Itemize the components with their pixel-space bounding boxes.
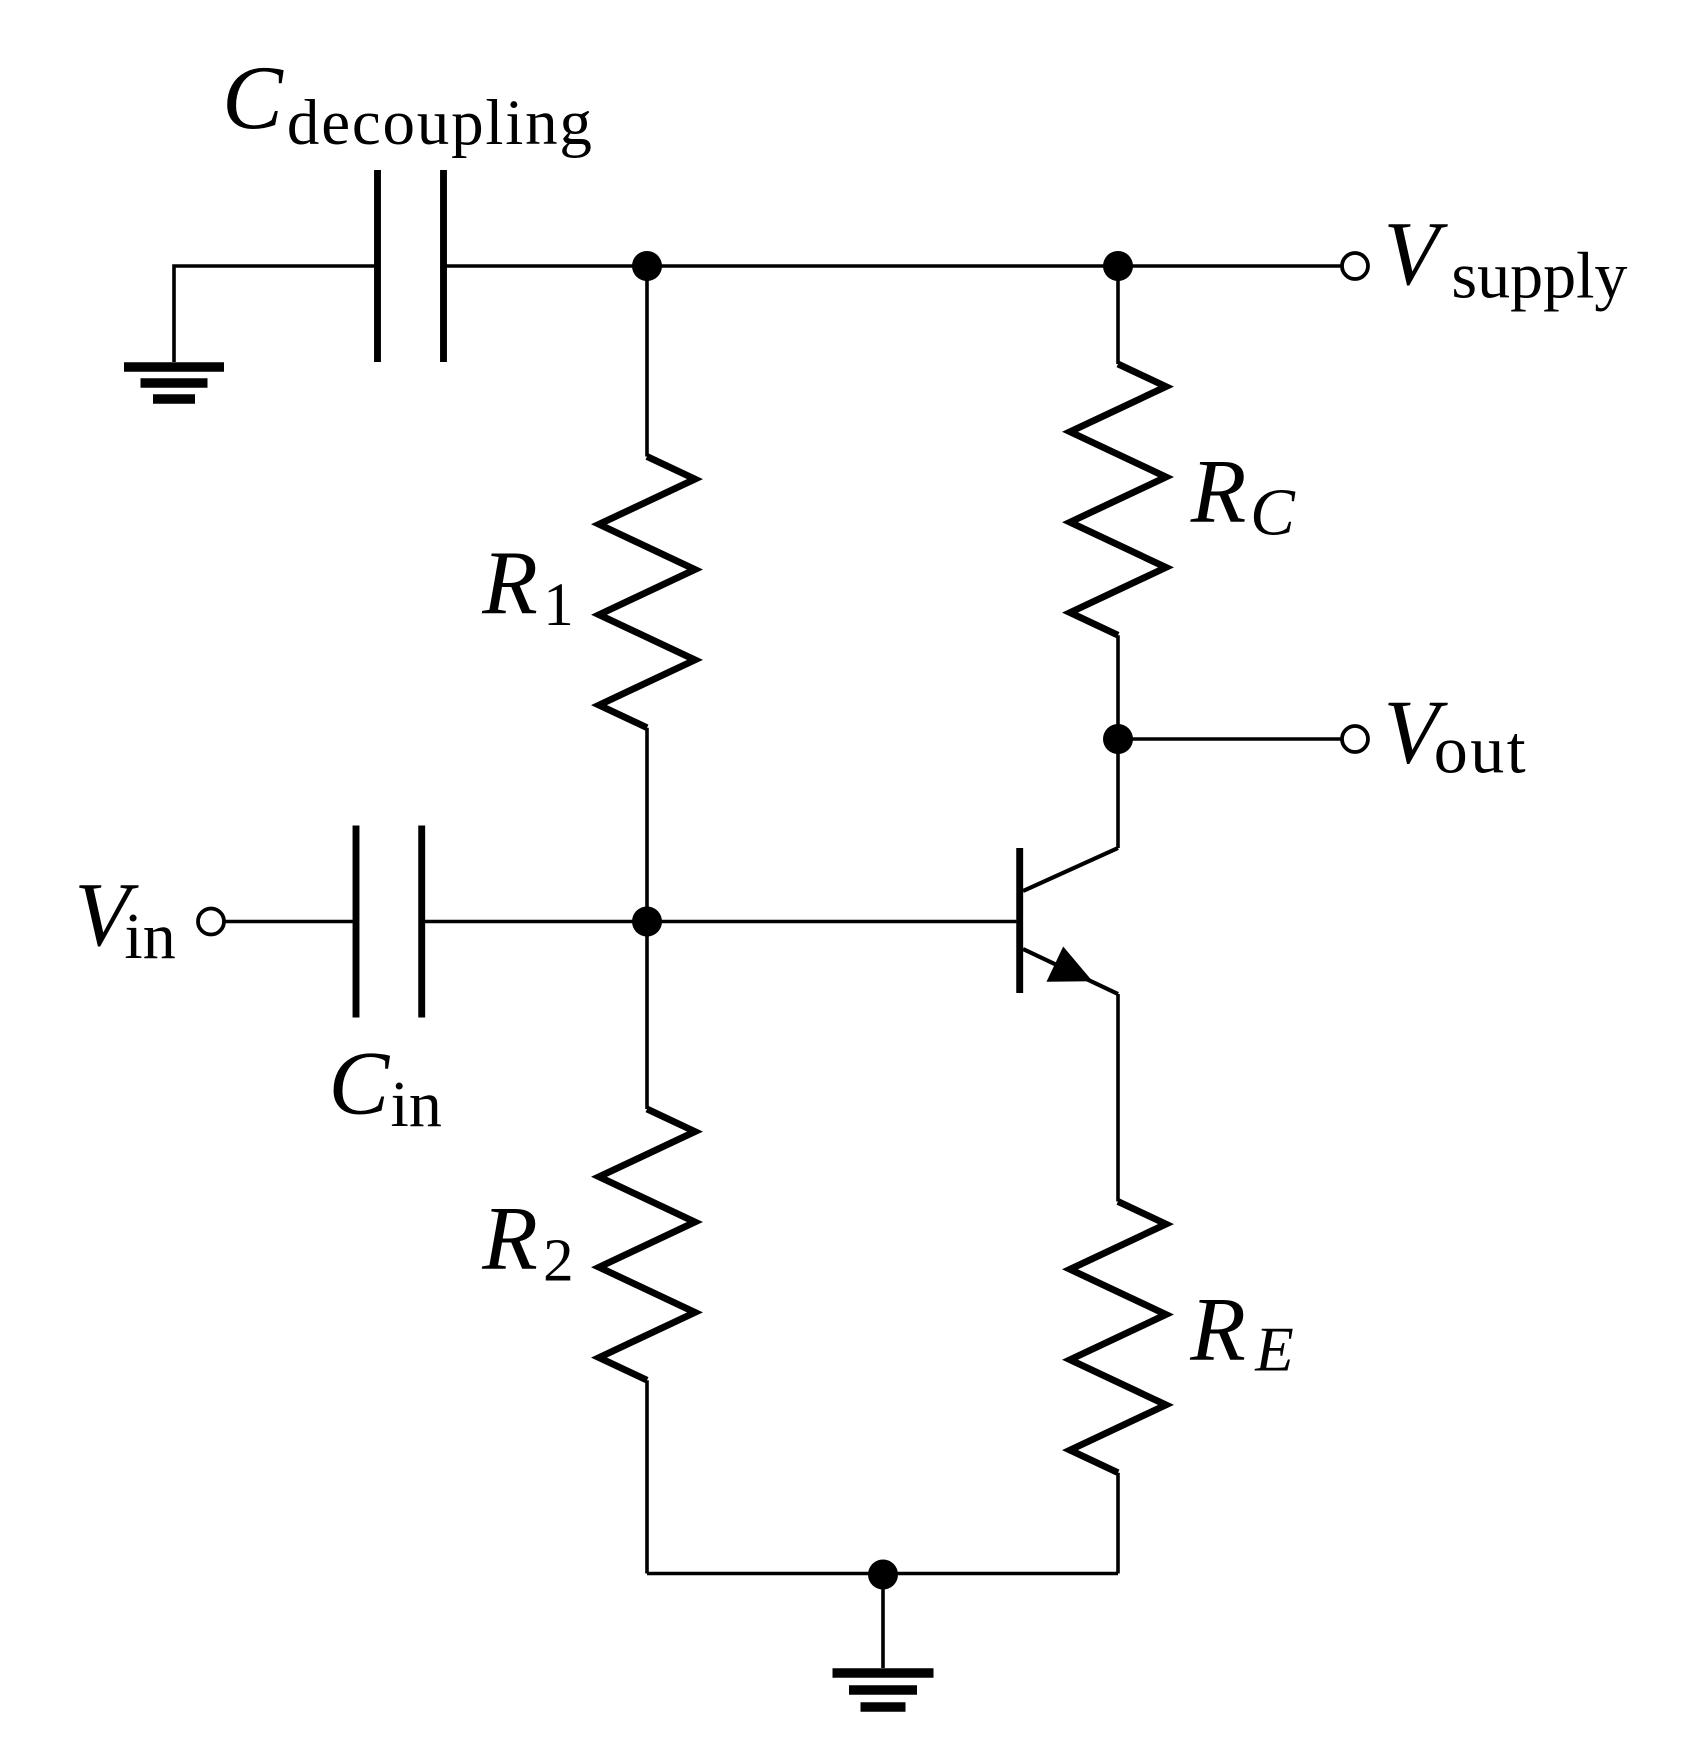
svg-text:C: C (1250, 476, 1296, 550)
wire emitter vertical (1116, 994, 1120, 1202)
resistor RC (1070, 266, 1166, 739)
resistor R1 (599, 266, 695, 922)
label Vout (1384, 682, 1529, 788)
ground (top left) (124, 367, 224, 399)
wire top rail right segment (447, 264, 1342, 268)
svg-text:supply: supply (1451, 240, 1627, 313)
resistor RE (1070, 1202, 1166, 1574)
svg-text:V: V (1384, 203, 1449, 304)
svg-text:2: 2 (543, 1228, 574, 1295)
wire Vin to Cin (226, 920, 354, 924)
svg-text:1: 1 (543, 572, 574, 639)
wire Cin to base node (425, 920, 647, 924)
label R1 (481, 532, 574, 639)
label Vsupply (1384, 203, 1628, 313)
svg-text:decoupling: decoupling (287, 87, 594, 159)
label R2 (481, 1188, 573, 1295)
capacitor Cin (356, 826, 422, 1018)
svg-text:in: in (391, 1068, 442, 1141)
node bottom ground junction (868, 1560, 898, 1590)
svg-text:C: C (329, 1033, 391, 1134)
svg-text:E: E (1254, 1315, 1293, 1385)
label RE (1189, 1278, 1293, 1384)
transistor Q1 collector diagonal (1023, 848, 1118, 891)
wire collector vertical (1116, 739, 1120, 848)
node Vout junction (1103, 724, 1133, 754)
svg-text:R: R (1190, 440, 1247, 541)
svg-text:R: R (1189, 1278, 1246, 1379)
node base junction (632, 907, 662, 937)
transistor Q1 base bar (1016, 848, 1023, 993)
terminal Vin (198, 909, 224, 935)
node top R1 junction (632, 251, 662, 281)
ground (bottom) (833, 1673, 934, 1707)
svg-text:R: R (481, 532, 538, 633)
terminal Vout (1342, 726, 1368, 752)
svg-text:in: in (124, 900, 175, 973)
svg-text:R: R (481, 1188, 538, 1289)
node top RC junction (1103, 251, 1133, 281)
label RC (1190, 440, 1296, 549)
transistor Q1 emitter diagonal (1023, 949, 1118, 994)
capacitor Cdecoupling (378, 170, 444, 362)
wire Vout (1118, 737, 1341, 741)
label Vin (74, 864, 175, 973)
transistor Q1 emitter arrow (1047, 947, 1093, 982)
wire top rail left segment (ground to Cdecoupling) (174, 266, 375, 362)
terminal Vsupply (1342, 253, 1368, 279)
label Cdecoupling (222, 47, 594, 159)
wire bottom rail (647, 1572, 1118, 1576)
wire ground stub (881, 1575, 885, 1669)
svg-text:out: out (1434, 712, 1528, 788)
resistor R2 (599, 922, 695, 1574)
label Cin (329, 1033, 442, 1141)
wire base (647, 920, 1016, 924)
svg-text:C: C (222, 47, 284, 148)
